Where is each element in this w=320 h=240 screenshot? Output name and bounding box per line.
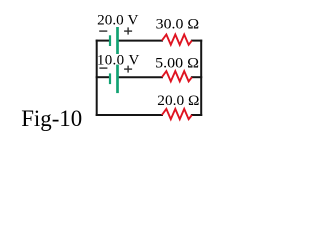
svg-text:5.00 Ω: 5.00 Ω [155, 56, 199, 72]
svg-text:30.0 Ω: 30.0 Ω [156, 17, 199, 33]
svg-text:Fig-10: Fig-10 [21, 106, 82, 132]
svg-text:20.0 V: 20.0 V [97, 12, 138, 28]
svg-text:20.0 Ω: 20.0 Ω [157, 93, 199, 109]
svg-text:10.0 V: 10.0 V [97, 52, 140, 68]
